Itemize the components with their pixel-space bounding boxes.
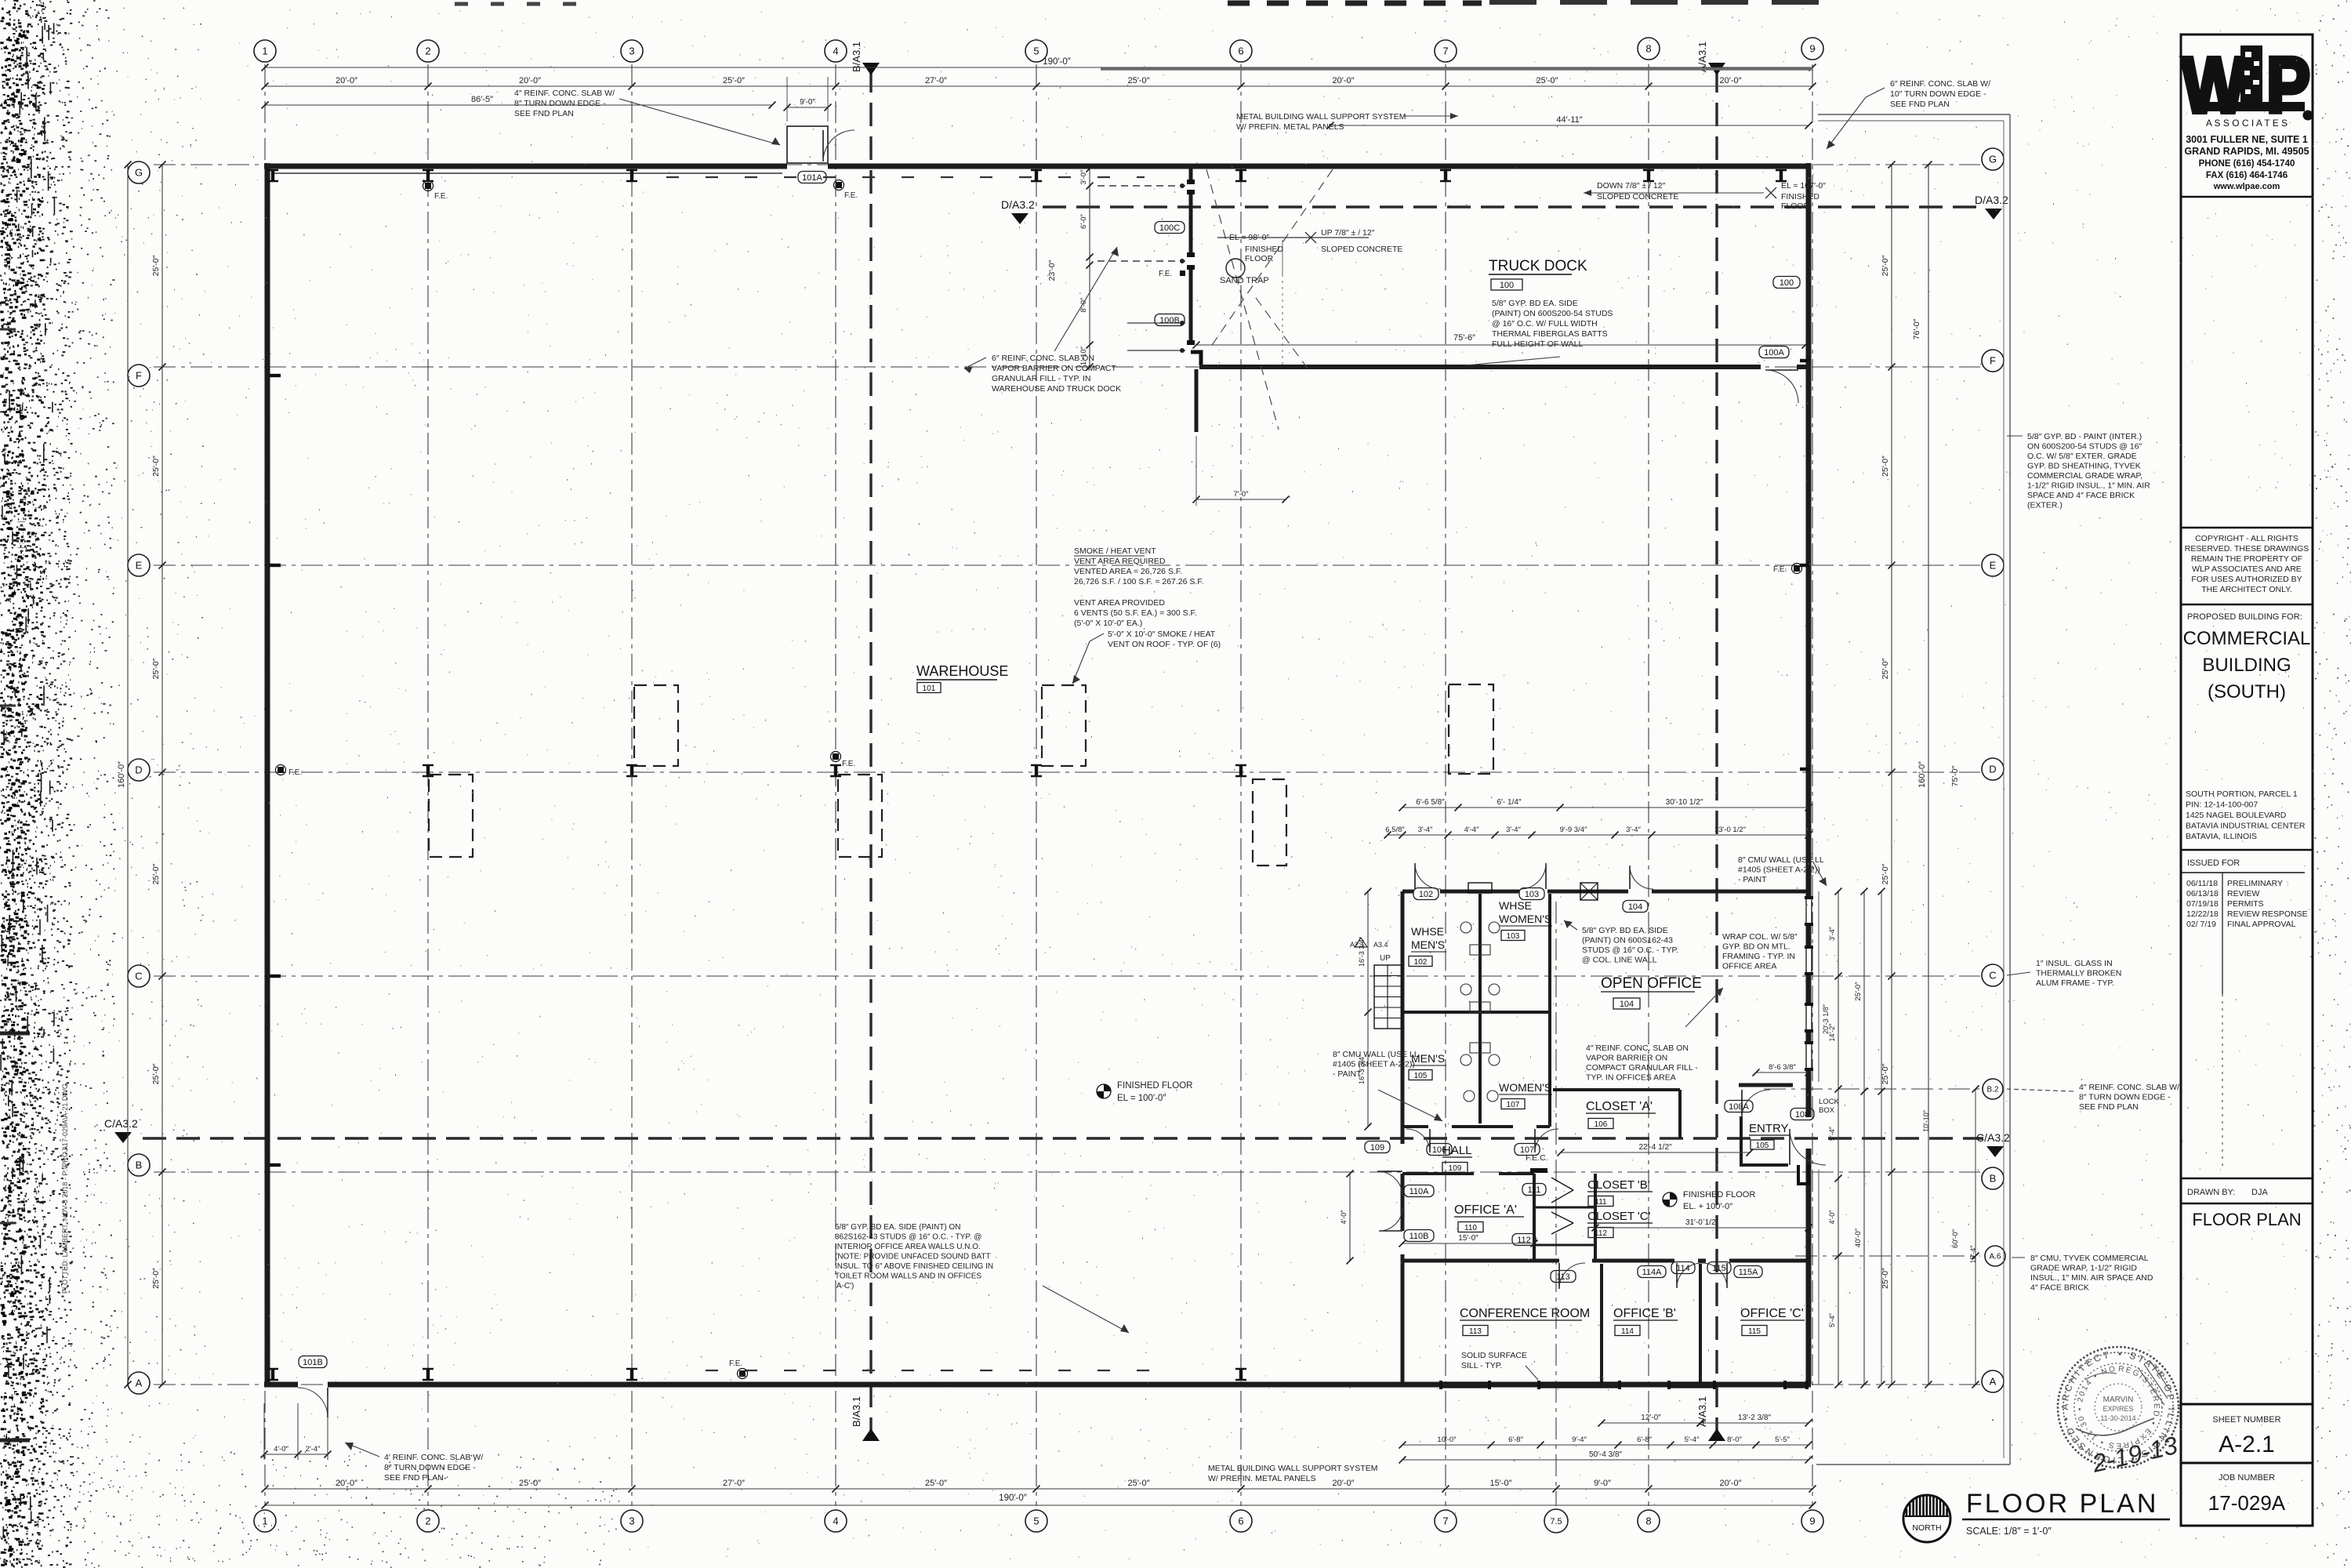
svg-text:F.E.C.: F.E.C. xyxy=(1526,1153,1548,1163)
svg-text:FRAMING - TYP. IN: FRAMING - TYP. IN xyxy=(1722,952,1795,961)
svg-text:CLOSET 'B': CLOSET 'B' xyxy=(1587,1178,1650,1192)
svg-text:B.2: B.2 xyxy=(1986,1086,1998,1094)
svg-text:FLOOR: FLOOR xyxy=(1781,201,1810,211)
door 101B (southwest) xyxy=(327,1388,328,1417)
svg-text:26,726 S.F. / 100 S.F. = 267.2: 26,726 S.F. / 100 S.F. = 267.26 S.F. xyxy=(1074,577,1203,586)
svg-text:160′-0″: 160′-0″ xyxy=(117,761,126,788)
svg-text:9: 9 xyxy=(1809,43,1815,55)
svg-text:TOILET ROOM WALLS AND IN OFFIC: TOILET ROOM WALLS AND IN OFFICES xyxy=(835,1272,981,1281)
svg-text:COMMERCIAL: COMMERCIAL xyxy=(2183,628,2311,649)
svg-text:BUILDING: BUILDING xyxy=(2202,655,2291,676)
svg-text:VENT AREA PROVIDED: VENT AREA PROVIDED xyxy=(1074,598,1165,608)
door tag 107 xyxy=(1515,1144,1540,1156)
svg-text:6: 6 xyxy=(1238,1515,1243,1527)
svg-text:FAX (616) 464-1746: FAX (616) 464-1746 xyxy=(2206,171,2288,180)
svg-text:8′-0″: 8′-0″ xyxy=(1079,297,1088,313)
vestibule door bump 101A xyxy=(787,126,828,163)
restroom fixtures xyxy=(1460,922,1471,933)
door tag 115A xyxy=(1734,1266,1762,1278)
svg-text:8″ TURN DOWN EDGE -: 8″ TURN DOWN EDGE - xyxy=(2079,1093,2171,1102)
svg-text:VAPOR BARRIER ON: VAPOR BARRIER ON xyxy=(1586,1054,1667,1063)
svg-text:101A: 101A xyxy=(802,173,822,183)
svg-text:FLOOR PLAN: FLOOR PLAN xyxy=(1966,1489,2158,1519)
door tag 104 xyxy=(1623,901,1648,913)
door 115 xyxy=(1726,1263,1728,1288)
copyright box xyxy=(2181,527,2313,529)
svg-text:102: 102 xyxy=(1419,890,1433,899)
svg-text:WOMEN'S: WOMEN'S xyxy=(1499,913,1551,925)
svg-text:362S162-43 STUDS @ 16″ O.C. -: 362S162-43 STUDS @ 16″ O.C. - TYP. @ xyxy=(835,1233,981,1242)
office top dim row1 xyxy=(1402,807,1809,808)
svg-text:#1405 (SHEET A-2.2)): #1405 (SHEET A-2.2)) xyxy=(1333,1060,1415,1069)
truck dock west wall with overhead door openings xyxy=(1189,169,1193,184)
door 107 xyxy=(1534,1129,1536,1152)
svg-text:VENTED AREA = 26,726 S.F.: VENTED AREA = 26,726 S.F. xyxy=(1074,567,1182,576)
svg-text:115: 115 xyxy=(1712,1264,1726,1273)
svg-text:- PAINT: - PAINT xyxy=(1738,875,1767,884)
svg-text:DJA: DJA xyxy=(2251,1188,2268,1197)
svg-text:5′-0″ X 10′-0″ SMOKE / HEAT: 5′-0″ X 10′-0″ SMOKE / HEAT xyxy=(1108,630,1216,639)
svg-text:F.E.: F.E. xyxy=(1159,270,1172,278)
svg-text:110B: 110B xyxy=(1410,1232,1429,1241)
svg-text:6′-8″: 6′-8″ xyxy=(1637,1436,1653,1444)
svg-text:PHONE (616) 454-1740: PHONE (616) 454-1740 xyxy=(2199,159,2295,169)
flag C/A3.2 left xyxy=(114,1132,132,1143)
svg-text:TRUCK DOCK: TRUCK DOCK xyxy=(1489,258,1587,274)
svg-text:160′-0″: 160′-0″ xyxy=(1917,761,1927,788)
door tag 101A xyxy=(798,172,826,183)
svg-text:25′-0″: 25′-0″ xyxy=(925,1479,947,1488)
svg-text:SCALE: 1/8″ = 1′-0″: SCALE: 1/8″ = 1′-0″ xyxy=(1966,1526,2052,1537)
svg-text:2′-4″: 2′-4″ xyxy=(306,1445,321,1454)
office/conference north wall xyxy=(1402,1259,1559,1263)
svg-text:SEE FND PLAN: SEE FND PLAN xyxy=(514,109,574,118)
flag A/A3.1 bottom xyxy=(1708,1428,1725,1441)
svg-text:4: 4 xyxy=(833,1515,838,1527)
sheet number box xyxy=(2181,1403,2313,1406)
svg-text:5′-5″: 5′-5″ xyxy=(1775,1436,1790,1444)
svg-text:DOWN 7/8″ ± / 12″: DOWN 7/8″ ± / 12″ xyxy=(1597,181,1666,191)
room number 100 xyxy=(1491,279,1522,290)
svg-text:102: 102 xyxy=(1414,958,1428,967)
left dimension total xyxy=(127,165,129,1385)
svg-text:PERMITS: PERMITS xyxy=(2227,899,2264,909)
door tag 103 xyxy=(1519,888,1544,900)
svg-text:25′-0″: 25′-0″ xyxy=(1881,658,1890,679)
svg-text:W/ PREFIN. METAL PANELS: W/ PREFIN. METAL PANELS xyxy=(1208,1474,1316,1483)
steel columns at west wall xyxy=(270,374,281,377)
roof smoke vents (dashed) xyxy=(634,685,678,766)
svg-text:4′-0″: 4′-0″ xyxy=(1340,1210,1348,1225)
entry south wall xyxy=(1741,1163,1788,1167)
svg-text:101: 101 xyxy=(923,684,936,693)
svg-text:OFFICE 'A': OFFICE 'A' xyxy=(1454,1203,1517,1217)
svg-text:CONFERENCE ROOM: CONFERENCE ROOM xyxy=(1460,1307,1590,1320)
svg-text:111: 111 xyxy=(1528,1185,1541,1195)
closet A walls xyxy=(1553,1088,1680,1091)
door 102 xyxy=(1414,863,1416,889)
title block outer frame xyxy=(2181,34,2313,1526)
svg-text:SEE FND PLAN: SEE FND PLAN xyxy=(2079,1102,2139,1112)
svg-text:107: 107 xyxy=(1507,1101,1520,1109)
svg-text:190′-0″: 190′-0″ xyxy=(999,1494,1027,1503)
svg-text:5: 5 xyxy=(1033,45,1039,57)
svg-text:6′-0″: 6′-0″ xyxy=(1079,213,1088,229)
svg-text:3001 FULLER NE, SUITE 1: 3001 FULLER NE, SUITE 1 xyxy=(2186,134,2308,145)
office west wall xyxy=(1401,891,1405,1144)
svg-text:113: 113 xyxy=(1556,1272,1570,1282)
door 101A xyxy=(822,130,824,162)
svg-text:4′-4″: 4′-4″ xyxy=(1464,826,1480,834)
svg-text:25′-0″: 25′-0″ xyxy=(1128,76,1150,85)
svg-text:100: 100 xyxy=(1780,278,1794,288)
south windows xyxy=(1442,1381,1488,1383)
svg-text:8″ TURN DOWN EDGE -: 8″ TURN DOWN EDGE - xyxy=(514,99,606,108)
flag B/A3.1 bottom xyxy=(862,1428,880,1441)
exterior wall north (grid G) xyxy=(264,164,787,169)
svg-text:101B: 101B xyxy=(303,1358,323,1367)
svg-text:5/8″ GYP. BD EA. SIDE: 5/8″ GYP. BD EA. SIDE xyxy=(1582,926,1668,935)
svg-text:114A: 114A xyxy=(1642,1268,1663,1277)
entry alcove stub xyxy=(1798,1165,1809,1184)
svg-text:MEN'S: MEN'S xyxy=(1411,938,1445,951)
finished floor symbol office xyxy=(1663,1192,1677,1207)
svg-text:CLOSET 'A': CLOSET 'A' xyxy=(1586,1100,1653,1113)
column X mark on office wall xyxy=(1580,883,1598,900)
svg-text:12′-0″: 12′-0″ xyxy=(1641,1414,1661,1422)
svg-text:111: 111 xyxy=(1595,1198,1607,1207)
steel columns at south wall xyxy=(271,1369,274,1380)
hall south wall xyxy=(1402,1172,1474,1175)
room tag 100 (truck dock east side) xyxy=(1773,277,1800,289)
svg-text:FULL HEIGHT OF WALL: FULL HEIGHT OF WALL xyxy=(1492,339,1583,349)
svg-text:REVIEW: REVIEW xyxy=(2227,889,2260,898)
svg-text:15′-4″: 15′-4″ xyxy=(1969,1245,1977,1264)
svg-text:6″ REINF. CONC. SLAB W/: 6″ REINF. CONC. SLAB W/ xyxy=(1890,79,1990,89)
svg-text:B: B xyxy=(136,1160,143,1171)
svg-text:SMOKE / HEAT VENT: SMOKE / HEAT VENT xyxy=(1074,546,1156,556)
office north wall xyxy=(1402,890,1413,894)
door tag 111 xyxy=(1522,1184,1546,1196)
svg-text:4″ FACE BRICK: 4″ FACE BRICK xyxy=(2030,1283,2089,1293)
svg-text:25′-0″: 25′-0″ xyxy=(1881,1268,1890,1289)
svg-text:F: F xyxy=(136,370,142,382)
svg-text:REMAIN THE PROPERTY OF: REMAIN THE PROPERTY OF xyxy=(2191,554,2302,564)
door 104 xyxy=(1629,866,1631,889)
entry dim 8-6 xyxy=(1756,1072,1809,1073)
svg-text:PLOTTED: LAMBERT, NOV 8 2018 -: PLOTTED: LAMBERT, NOV 8 2018 - P:\PROJ\1… xyxy=(61,1083,69,1294)
dock wall jog xyxy=(1191,352,1201,365)
closet east wall xyxy=(1594,1174,1597,1261)
svg-text:E: E xyxy=(1990,560,1997,572)
svg-text:THERMAL FIBERGLAS BATTS: THERMAL FIBERGLAS BATTS xyxy=(1492,329,1608,339)
svg-text:PIN: 12-14-100-007: PIN: 12-14-100-007 xyxy=(2186,800,2258,810)
dock wall stub below xyxy=(1195,369,1199,432)
svg-text:06/11/18: 06/11/18 xyxy=(2186,879,2218,888)
svg-text:15′-0″: 15′-0″ xyxy=(1490,1479,1512,1488)
svg-text:INSUL. TO 6″ ABOVE FINISHED CE: INSUL. TO 6″ ABOVE FINISHED CEILING IN xyxy=(835,1262,993,1271)
roofline dashes below north wall xyxy=(666,176,1145,178)
svg-text:25′-0″: 25′-0″ xyxy=(151,456,161,477)
svg-text:25′-0″: 25′-0″ xyxy=(723,76,745,85)
svg-text:METAL BUILDING WALL SUPPORT SY: METAL BUILDING WALL SUPPORT SYSTEM xyxy=(1208,1464,1377,1473)
svg-text:3: 3 xyxy=(629,1515,634,1527)
svg-text:11-30-2014: 11-30-2014 xyxy=(2100,1414,2135,1422)
svg-text:75′-6″: 75′-6″ xyxy=(1453,333,1475,343)
column box on office wall xyxy=(1468,883,1492,893)
section cut line C/A3.2 (heavy dashed horizontal) xyxy=(143,1137,1983,1139)
scan noise bottom left xyxy=(77,1452,625,1567)
dock interior dim 75-6 xyxy=(1196,344,1805,346)
door 110A arc xyxy=(1379,1230,1402,1232)
scan noise left edge band outer xyxy=(71,1,116,1568)
exterior wall east (grid 9) xyxy=(1806,163,1812,899)
svg-text:W/ PREFIN. METAL PANELS: W/ PREFIN. METAL PANELS xyxy=(1236,122,1344,132)
door tag 112 xyxy=(1512,1234,1536,1246)
svg-text:40′-0″: 40′-0″ xyxy=(1854,1228,1863,1247)
svg-text:5/8″ GYP. BD EA. SIDE: 5/8″ GYP. BD EA. SIDE xyxy=(1492,299,1578,308)
door tag 115 xyxy=(1707,1262,1731,1274)
svg-text:BATAVIA INDUSTRIAL CENTER: BATAVIA INDUSTRIAL CENTER xyxy=(2186,822,2306,831)
svg-text:COMMERCIAL GRADE WRAP,: COMMERCIAL GRADE WRAP, xyxy=(2027,471,2142,481)
svg-text:3′-4″: 3′-4″ xyxy=(1828,926,1836,941)
closet bifold doors xyxy=(1551,1178,1573,1190)
svg-text:8′-6 3/8″: 8′-6 3/8″ xyxy=(1769,1063,1796,1072)
svg-text:25′-0″: 25′-0″ xyxy=(1881,456,1890,477)
exterior wall south (grid A) xyxy=(264,1382,298,1388)
svg-text:@ 16″ O.C. W/ FULL WIDTH: @ 16″ O.C. W/ FULL WIDTH xyxy=(1492,319,1598,328)
svg-text:6′-6 5/8″: 6′-6 5/8″ xyxy=(1416,798,1445,807)
grid bubbles right G F E D C B.2 B A.6 A xyxy=(1982,148,2004,170)
svg-text:06/13/18: 06/13/18 xyxy=(2186,889,2219,898)
svg-text:(PAINT) ON 600S200-54 STUDS: (PAINT) ON 600S200-54 STUDS xyxy=(1492,309,1613,318)
restroom center wall xyxy=(1478,894,1482,1123)
svg-text:A.6: A.6 xyxy=(1989,1253,2001,1261)
svg-text:WHSE: WHSE xyxy=(1411,925,1444,938)
svg-text:G: G xyxy=(1989,154,1997,165)
svg-text:A/A3.1: A/A3.1 xyxy=(1696,1396,1708,1427)
svg-text:FINISHED FLOOR: FINISHED FLOOR xyxy=(1683,1190,1755,1200)
svg-text:106: 106 xyxy=(1595,1120,1608,1129)
svg-text:8″ CMU, TYVEK COMMERCIAL: 8″ CMU, TYVEK COMMERCIAL xyxy=(2030,1254,2149,1263)
svg-text:5/8″ GYP. BD - PAINT (INTER.): 5/8″ GYP. BD - PAINT (INTER.) xyxy=(2027,432,2142,441)
svg-text:109: 109 xyxy=(1370,1143,1384,1152)
svg-text:4′-0″: 4′-0″ xyxy=(1828,1210,1836,1225)
east brick veneer line xyxy=(1818,891,1819,1082)
svg-text:F: F xyxy=(1990,355,1996,367)
svg-text:6′-8″: 6′-8″ xyxy=(1508,1436,1524,1444)
section cut line A/A3.1 (heavy dashed vertical) xyxy=(1715,69,1718,1433)
scan noise left edge band xyxy=(0,0,74,1567)
svg-text:20′-0″: 20′-0″ xyxy=(336,76,357,85)
svg-text:114: 114 xyxy=(1676,1264,1690,1273)
svg-text:PRELIMINARY: PRELIMINARY xyxy=(2227,879,2283,888)
svg-text:PROPOSED BUILDING FOR:: PROPOSED BUILDING FOR: xyxy=(2187,612,2302,622)
svg-text:FINAL APPROVAL: FINAL APPROVAL xyxy=(2227,920,2296,929)
svg-text:20′-0″: 20′-0″ xyxy=(1333,76,1355,85)
issued for box xyxy=(2181,849,2313,851)
svg-text:100C: 100C xyxy=(1159,223,1180,233)
svg-text:WRAP COL. W/ 5/8″: WRAP COL. W/ 5/8″ xyxy=(1722,932,1798,942)
finished floor symbol warehouse xyxy=(1097,1084,1111,1098)
svg-text:WAREHOUSE: WAREHOUSE xyxy=(916,663,1008,679)
svg-text:8″ CMU WALL (USE LL: 8″ CMU WALL (USE LL xyxy=(1333,1050,1419,1059)
svg-text:25′-0″: 25′-0″ xyxy=(151,1268,161,1289)
svg-text:2: 2 xyxy=(425,1515,430,1527)
svg-text:FINISHED: FINISHED xyxy=(1245,245,1283,254)
svg-text:3′-4″: 3′-4″ xyxy=(1626,826,1642,834)
svg-text:10″ TURN DOWN EDGE -: 10″ TURN DOWN EDGE - xyxy=(1890,89,1986,99)
svg-text:GRANULAR FILL - TYP. IN: GRANULAR FILL - TYP. IN xyxy=(992,374,1090,383)
svg-text:DRAWN BY:: DRAWN BY: xyxy=(2187,1188,2235,1197)
svg-text:LOCK: LOCK xyxy=(1819,1098,1840,1106)
door tag 110B xyxy=(1404,1230,1434,1242)
svg-text:113: 113 xyxy=(1469,1327,1482,1336)
svg-text:O.C. W/ 5/8″ EXTER. GRADE: O.C. W/ 5/8″ EXTER. GRADE xyxy=(2027,452,2137,461)
svg-text:OFFICE 'C': OFFICE 'C' xyxy=(1740,1307,1804,1320)
svg-text:VAPOR BARRIER ON COMPACT: VAPOR BARRIER ON COMPACT xyxy=(992,364,1116,373)
svg-text:5/8″ GYP. BD EA. SIDE (PAINT): 5/8″ GYP. BD EA. SIDE (PAINT) ON xyxy=(835,1223,960,1232)
top dimension chain total xyxy=(265,67,1812,68)
svg-text:| : | .. :: | . :: | : | .. :: | . : xyxy=(17,512,26,549)
flag D/A3.2 left xyxy=(1011,213,1029,224)
svg-text:CLOSET 'C': CLOSET 'C' xyxy=(1587,1210,1651,1223)
svg-text:A: A xyxy=(1990,1376,1997,1388)
svg-text:25′-0″: 25′-0″ xyxy=(1536,76,1558,85)
svg-text:8′-0″: 8′-0″ xyxy=(1727,1436,1743,1444)
top dimension 86-5 xyxy=(265,104,772,106)
svg-text:25′-0″: 25′-0″ xyxy=(1128,1479,1150,1488)
svg-text:16′-3 3/4″: 16′-3 3/4″ xyxy=(1358,1054,1366,1084)
svg-text:25′-0″: 25′-0″ xyxy=(519,1479,541,1488)
svg-text:109: 109 xyxy=(1449,1164,1462,1173)
office top dim row2 xyxy=(1388,834,1809,836)
office mid dim 31-0 xyxy=(1595,1227,1809,1229)
svg-text:SOLID SURFACE: SOLID SURFACE xyxy=(1461,1351,1527,1360)
svg-text:FLOOR: FLOOR xyxy=(1245,254,1274,263)
closet B/C divider xyxy=(1534,1207,1595,1209)
right dimension chain xyxy=(1891,165,1892,1385)
door tag 109 xyxy=(1365,1142,1390,1153)
closet C south wall xyxy=(1534,1244,1595,1247)
svg-text:F.E.: F.E. xyxy=(842,760,855,768)
svg-text:44′-11″: 44′-11″ xyxy=(1556,115,1582,125)
door 100A xyxy=(1765,369,1798,371)
scan noise right margin xyxy=(2313,2,2351,1566)
svg-text:9: 9 xyxy=(1809,1515,1815,1527)
svg-text:5′-4″: 5′-4″ xyxy=(1828,1126,1836,1141)
svg-text:20′-0″: 20′-0″ xyxy=(1720,1479,1742,1488)
svg-text:115A: 115A xyxy=(1739,1268,1759,1277)
roofline dashes above south wall xyxy=(706,1370,1176,1371)
office A east / closet west wall xyxy=(1533,1174,1536,1261)
svg-text:7′-0″: 7′-0″ xyxy=(1234,490,1250,499)
svg-text:INTERIOR OFFICE AREA WALLS U.N: INTERIOR OFFICE AREA WALLS U.N.O. xyxy=(835,1243,981,1251)
svg-text:20′-3 1/8″: 20′-3 1/8″ xyxy=(1822,1004,1830,1034)
grid bubbles top 1-9 xyxy=(254,40,276,62)
svg-text:HALL: HALL xyxy=(1442,1144,1472,1157)
svg-text:'A-C'): 'A-C') xyxy=(835,1282,854,1290)
dock top dim 44-11 xyxy=(1330,125,1809,126)
truck dock south wall xyxy=(1199,365,1761,369)
svg-text:C: C xyxy=(135,971,142,982)
room number 101 xyxy=(917,683,941,693)
svg-text:C: C xyxy=(1989,970,1996,982)
svg-text:EL. + 100′-0″: EL. + 100′-0″ xyxy=(1683,1202,1732,1211)
left dimension chain xyxy=(161,165,163,1385)
svg-text:20′-0″: 20′-0″ xyxy=(336,1479,357,1488)
svg-text:UP: UP xyxy=(1380,954,1391,963)
svg-text:FINISHED FLOOR: FINISHED FLOOR xyxy=(1117,1081,1192,1091)
svg-text:112: 112 xyxy=(1595,1229,1607,1238)
svg-text:1″ INSUL. GLASS IN: 1″ INSUL. GLASS IN xyxy=(2036,959,2113,968)
svg-text:OFFICE 'B': OFFICE 'B' xyxy=(1613,1307,1676,1320)
svg-text:7: 7 xyxy=(1442,1515,1448,1527)
office bottom total xyxy=(1402,1459,1809,1461)
steel columns at grid D interior xyxy=(426,765,430,776)
svg-text:4″ REINF. CONC. SLAB W/: 4″ REINF. CONC. SLAB W/ xyxy=(2079,1083,2179,1092)
svg-text:MARVIN: MARVIN xyxy=(2103,1396,2134,1404)
exterior wall west (grid 1) xyxy=(265,163,270,1385)
svg-text:4″ REINF. CONC. SLAB ON: 4″ REINF. CONC. SLAB ON xyxy=(1586,1044,1689,1053)
door tag 106 xyxy=(1427,1144,1452,1156)
svg-text:(5′-0″ X 10′-0″ EA.): (5′-0″ X 10′-0″ EA.) xyxy=(1074,619,1142,628)
svg-text:3: 3 xyxy=(629,45,634,57)
svg-text:THE ARCHITECT ONLY.: THE ARCHITECT ONLY. xyxy=(2201,585,2292,594)
svg-text:30′-10 1/2″: 30′-10 1/2″ xyxy=(1666,798,1703,807)
svg-text:SILL - TYP.: SILL - TYP. xyxy=(1461,1361,1502,1370)
svg-text:8: 8 xyxy=(1645,43,1651,55)
door 108A xyxy=(1741,1090,1743,1118)
office B/C wall xyxy=(1699,1264,1702,1382)
svg-text:A S S O C I A T E S: A S S O C I A T E S xyxy=(2206,118,2288,129)
svg-text:TYP. IN OFFICES AREA: TYP. IN OFFICES AREA xyxy=(1586,1073,1676,1083)
svg-text:F.E.: F.E. xyxy=(288,768,302,777)
svg-text:EL = 100′-0″: EL = 100′-0″ xyxy=(1117,1094,1166,1103)
svg-text:D: D xyxy=(1989,764,1996,775)
svg-text:5: 5 xyxy=(1033,1515,1039,1527)
section cut line B/A3.1 (heavy dashed vertical) xyxy=(869,69,872,1433)
door tag 100C xyxy=(1155,222,1185,234)
stair xyxy=(1374,965,1402,1029)
svg-text:SEE FND PLAN: SEE FND PLAN xyxy=(384,1473,444,1483)
door tag 102 xyxy=(1413,888,1439,900)
right dimension total xyxy=(1928,165,1929,1385)
svg-text:D/A3.2: D/A3.2 xyxy=(1001,198,1035,211)
flag C/A3.2 right xyxy=(1986,1146,2004,1157)
svg-text:B: B xyxy=(1990,1173,1997,1185)
svg-text:ALUM FRAME - TYP.: ALUM FRAME - TYP. xyxy=(2036,978,2114,988)
svg-text:114: 114 xyxy=(1621,1327,1634,1336)
svg-text:SOUTH PORTION, PARCEL 1: SOUTH PORTION, PARCEL 1 xyxy=(2186,789,2298,799)
svg-text:(NOTE: PROVIDE UNFACED SOUND B: (NOTE: PROVIDE UNFACED SOUND BATT xyxy=(835,1253,991,1261)
svg-text:25′-0″: 25′-0″ xyxy=(151,255,161,276)
flag D/A3.2 right xyxy=(1985,209,2002,220)
svg-text:76′-0″: 76′-0″ xyxy=(1912,318,1921,339)
svg-text:REVIEW RESPONSE: REVIEW RESPONSE xyxy=(2227,909,2308,919)
svg-text:25′-0″: 25′-0″ xyxy=(151,1063,161,1084)
svg-text:8″ TURN DOWN EDGE -: 8″ TURN DOWN EDGE - xyxy=(384,1463,476,1472)
svg-text:6′- 1/4″: 6′- 1/4″ xyxy=(1497,798,1522,807)
right office dims xyxy=(1838,891,1839,1385)
svg-text:VENT ON ROOF - TYP. OF (6): VENT ON ROOF - TYP. OF (6) xyxy=(1108,640,1221,649)
svg-text:1: 1 xyxy=(262,1515,267,1527)
svg-text:25′-0″: 25′-0″ xyxy=(1881,1063,1890,1084)
svg-text:25′-0″: 25′-0″ xyxy=(1881,255,1890,276)
svg-text:• STATE OF ILLINOIS • LICENSED: • STATE OF ILLINOIS • LICENSED • ARCHITE… xyxy=(0,0,2177,1466)
svg-text:SPACE AND 4″ FACE BRICK: SPACE AND 4″ FACE BRICK xyxy=(2027,491,2135,500)
svg-text:100A: 100A xyxy=(1764,348,1784,358)
